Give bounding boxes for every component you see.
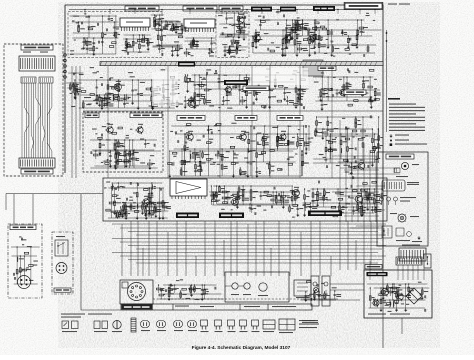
- label PTBM051A0X: [344, 2, 383, 9]
- PTL decoder unit outline: [4, 44, 63, 176]
- label EQUALIZER: [224, 80, 248, 85]
- wires AC to power unit: [319, 284, 364, 300]
- wiring harness horizontal bundle: [112, 224, 386, 263]
- key jack rear: [380, 197, 417, 205]
- mic unit 2 outline: [52, 232, 73, 294]
- label 1st IF AMP: [235, 116, 257, 121]
- front panel pots box: [225, 272, 289, 302]
- label AUDIO UNIT: [219, 213, 244, 219]
- supply rail verticals: [84, 9, 375, 14]
- label DRIVER: [280, 7, 296, 12]
- transmitter chain parts: [250, 11, 381, 57]
- audio output parts: [209, 185, 303, 217]
- label ALC AMP: [318, 66, 336, 71]
- REC PLL board parts: [122, 34, 154, 54]
- shielded cable bus: [100, 62, 383, 66]
- legend indicator symbol: [94, 321, 108, 332]
- wire mic set drops: [6, 194, 33, 225]
- label MIC SET UNIT: [10, 225, 36, 230]
- mic PTT switch box: [55, 236, 68, 256]
- bridge rectifier D31: [406, 288, 422, 304]
- RF amplifier parts: [90, 123, 161, 169]
- legend plug symbol 3: [228, 320, 236, 332]
- text Fig 4: [84, 97, 91, 98]
- front panel switches: [156, 279, 223, 300]
- legend connector hatch: [131, 318, 136, 332]
- power supply parts: [367, 282, 429, 312]
- label TRANS OSC BOARD: [183, 6, 217, 11]
- main border right lower segment: [382, 268, 384, 348]
- label PRE DRIVER: [251, 7, 272, 12]
- wire below power unit: [401, 318, 403, 334]
- connector J2 PTL decoder: [21, 77, 36, 83]
- parallel wire right border: [386, 30, 388, 132]
- dc switch lower parts: [222, 34, 248, 56]
- NOTES block: [388, 98, 425, 131]
- wires into rear panel: [340, 168, 400, 226]
- equalizer area parts: [184, 69, 309, 110]
- REAR PANEL outline: [377, 152, 428, 246]
- function switch box: [294, 280, 311, 298]
- dashed panel line: [153, 298, 310, 300]
- connector J1 PTL decoder: [19, 52, 55, 72]
- legend connector block B: [279, 319, 295, 333]
- label PTL DECODER footer: [21, 169, 53, 174]
- legend dial lamp symbol: [112, 321, 122, 333]
- MIC set unit outline: [8, 224, 42, 298]
- board edge rail y110: [83, 110, 383, 112]
- DC-CODE connector: [396, 257, 422, 265]
- supply rail top: [69, 9, 380, 11]
- wires power unit risers: [370, 261, 424, 280]
- label SENSE AMP CONTROL AMP: [368, 314, 410, 315]
- label REC PLL BOARD: [125, 6, 159, 11]
- wire mic harness vertical: [81, 194, 121, 310]
- harness risers to right side: [340, 120, 376, 222]
- mic element M2: [56, 263, 67, 274]
- label GM REL BOARD: [177, 116, 205, 121]
- crystal filter parts: [151, 14, 165, 29]
- accessory connector rear: [382, 180, 419, 191]
- RF amplifier board outline: [83, 112, 163, 172]
- rear lower boxes: [382, 226, 411, 241]
- speech amp parts: [104, 182, 169, 220]
- IC Q201 TRANS OSC: [184, 19, 215, 32]
- main schematic border: [65, 5, 383, 268]
- legend lamp PL3: [174, 321, 184, 332]
- label DC SWITCH: [219, 6, 243, 11]
- ext speaker jack: [394, 162, 419, 177]
- label MULTIPLIER: [243, 86, 269, 91]
- connector J4 PTL decoder bottom: [19, 158, 55, 168]
- PLL loop filter parts: [153, 20, 183, 56]
- label PC-0509: [365, 265, 382, 269]
- TRANS OSC board parts: [184, 37, 216, 57]
- long vertical runs center: [108, 66, 332, 178]
- connector J3 PTL decoder: [39, 77, 53, 83]
- op-amp U3 audio power amp: [170, 179, 207, 199]
- notes ground symbol legend: [390, 134, 428, 146]
- label REAR PANEL: [386, 154, 414, 159]
- svg-text:Figure 4-4. Schematic Diagram,: Figure 4-4. Schematic Diagram, Model 310…: [192, 345, 291, 351]
- rear panel feed ladder: [332, 156, 379, 228]
- label SQUELCH SWITCH: [308, 211, 342, 217]
- mixer stage parts: [71, 67, 183, 109]
- IF strip parts: [168, 123, 314, 178]
- audio mid parts: [120, 197, 171, 218]
- drawing number text: [388, 4, 410, 5]
- ground lug rear: [412, 236, 422, 242]
- DC switch parts: [216, 12, 250, 56]
- ALC area parts: [313, 68, 381, 110]
- scan noise filter: [0, 0, 1, 1]
- legend lamp PL2: [157, 321, 167, 332]
- power transformer T1: [399, 245, 426, 262]
- legend lamp PL4: [188, 321, 198, 332]
- IC Q101 REC PLL: [120, 18, 150, 31]
- power supply unit outline: [364, 270, 432, 318]
- label FREQ SW: [344, 90, 366, 95]
- mic set unit parts: [11, 236, 40, 284]
- label SERIES REG: [367, 272, 388, 276]
- panel divider strip: [121, 304, 312, 310]
- squelch parts: [302, 181, 387, 217]
- label PTL DECODER header: [21, 45, 53, 50]
- transistor Q31 series regulator: [380, 287, 389, 297]
- pll reference parts: [166, 22, 188, 38]
- antenna jack rear: [390, 213, 419, 222]
- label BUFFER: [178, 62, 195, 67]
- transistor Q32 control amp: [395, 293, 403, 302]
- label SPEECH AMP: [176, 213, 199, 219]
- light patch mid left: [152, 72, 178, 106]
- audio unit outline: [103, 178, 387, 221]
- label RF ATT: [85, 113, 99, 118]
- driver bias parts: [294, 19, 311, 30]
- harness vertical drops: [122, 221, 371, 276]
- detector area parts: [313, 115, 383, 179]
- legend plug symbol 1: [201, 320, 209, 332]
- panel lamp: [313, 287, 318, 292]
- long vertical runs left: [72, 66, 80, 178]
- left column parts: [66, 73, 84, 100]
- mic unit 2 bottom label: [54, 288, 71, 292]
- legend connector block A: [263, 320, 275, 332]
- legend lamp PL1: [141, 321, 151, 332]
- wire bundle PTL decoder harness: [22, 83, 52, 158]
- transistor Q33 sense amp: [371, 299, 379, 307]
- legend arrow notes: [299, 320, 319, 328]
- light patch mid right: [250, 68, 308, 85]
- label 2nd IF AMP: [277, 116, 303, 121]
- legend plug symbol 5: [252, 320, 260, 332]
- wire mic tap horizontal: [6, 193, 103, 195]
- AC input connector: [302, 276, 330, 323]
- legend header text: [61, 314, 112, 318]
- fuse holder: [424, 254, 431, 268]
- left border connector dots: [64, 54, 67, 79]
- label RF PWR UNIT: [313, 6, 335, 11]
- legend plug symbol 2: [215, 320, 223, 332]
- receiver PLL components: [70, 13, 121, 55]
- shield box RF PWR: [303, 60, 323, 76]
- meter parts: [300, 281, 341, 302]
- DC switch board dashed outline: [216, 12, 249, 58]
- REC PLL board dashed outline: [68, 12, 162, 58]
- mic connector front panel: [120, 280, 153, 304]
- microphone element M1: [18, 276, 31, 289]
- legend plug symbol 4: [240, 320, 248, 332]
- legend meter symbol: [62, 321, 78, 332]
- label CAL REL BOARD: [130, 113, 162, 118]
